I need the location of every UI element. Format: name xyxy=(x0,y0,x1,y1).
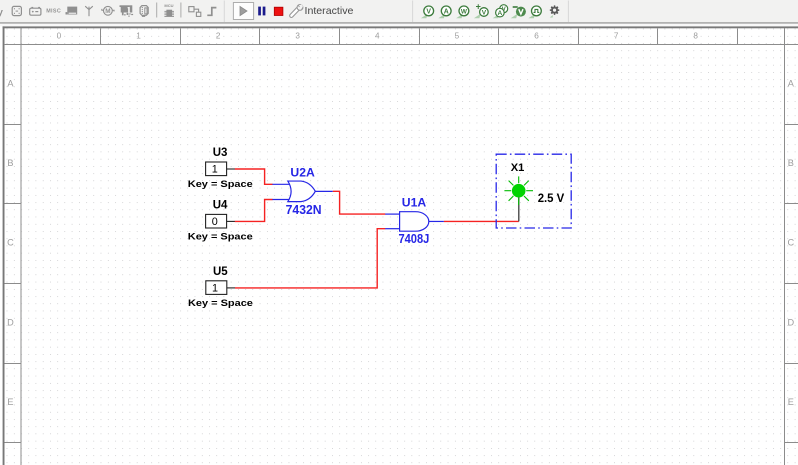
switch U4 pin stub xyxy=(227,220,235,222)
probe X1 lamp xyxy=(512,184,526,198)
or-gate U2A input pin 1 xyxy=(272,183,290,185)
svg-text:1: 1 xyxy=(136,32,141,41)
toolbar: stop button xyxy=(274,7,283,15)
svg-text:0: 0 xyxy=(212,216,218,228)
svg-text:4: 4 xyxy=(375,32,380,41)
or-gate U2A body xyxy=(288,181,316,202)
sheet frame top xyxy=(3,26,798,28)
toolbar: CMOS icon xyxy=(12,6,21,15)
toolbar bottom edge xyxy=(0,22,798,23)
svg-text:U3: U3 xyxy=(213,147,228,159)
toolbar: probe A/V xyxy=(493,5,508,19)
svg-text:V: V xyxy=(426,9,431,16)
svg-text:A: A xyxy=(7,79,14,89)
ruler inner lines xyxy=(21,28,22,465)
toolbar: peripherals icon xyxy=(66,7,78,15)
svg-text:C: C xyxy=(7,238,14,248)
switch U4 label xyxy=(213,200,228,212)
svg-text:3: 3 xyxy=(295,32,300,41)
svg-text:Interactive: Interactive xyxy=(305,6,354,17)
toolbar: NI ELVIS icon xyxy=(120,5,134,16)
svg-text:Key = Space: Key = Space xyxy=(188,298,253,308)
toolbar: leftmost clipped icon xyxy=(0,7,4,18)
probe X1 stem xyxy=(518,197,520,222)
probe X1 label xyxy=(511,162,525,174)
svg-text:5: 5 xyxy=(455,32,460,41)
toolbar: probe V xyxy=(421,6,434,18)
toolbar: separator xyxy=(180,3,181,18)
switch U5 value 1 xyxy=(212,282,218,294)
switch U5 key label xyxy=(188,298,253,308)
toolbar: Interactive text xyxy=(305,6,354,17)
toolbar: RF icon xyxy=(85,6,93,16)
switch U5 label xyxy=(213,266,228,278)
sheet frame left xyxy=(3,26,5,465)
svg-text:A: A xyxy=(444,9,449,16)
svg-text:8: 8 xyxy=(693,32,698,41)
svg-text:C: C xyxy=(787,238,794,248)
svg-text:6: 6 xyxy=(534,32,539,41)
switch U3 pin stub xyxy=(227,168,235,170)
svg-text:MISC: MISC xyxy=(46,9,61,15)
svg-text:D: D xyxy=(7,317,14,327)
or-gate U2A output pin xyxy=(315,190,333,192)
wire U4 to U2A xyxy=(235,200,273,222)
toolbar: misc digital icon xyxy=(30,7,41,15)
toolbar: electromechanical icon xyxy=(101,6,114,15)
wire U1A to probe X1 xyxy=(444,220,519,222)
toolbar: run button xyxy=(233,3,253,20)
wire U5 to U1A xyxy=(235,229,385,288)
toolbar: probe settings gear xyxy=(550,5,560,17)
and-gate U1A part number 7408J xyxy=(398,231,429,246)
and-gate U1A input pin 1 xyxy=(385,213,400,215)
toolbar: bus icon xyxy=(207,8,216,16)
switch U4 body xyxy=(206,214,227,228)
svg-text:U2A: U2A xyxy=(290,165,315,179)
toolbar: wrench icon xyxy=(291,5,303,16)
switch U3 label xyxy=(213,147,228,159)
or-gate U2A input pin 2 xyxy=(272,199,290,201)
svg-text:1: 1 xyxy=(212,282,218,294)
toolbar: probe -V xyxy=(511,6,526,18)
svg-text:A: A xyxy=(788,79,795,89)
switch U3 value 1 xyxy=(212,164,218,176)
toolbar: group edge xyxy=(412,1,413,23)
probe X1 rays xyxy=(504,176,533,205)
toolbar: probe +V xyxy=(474,1,488,18)
svg-text:7: 7 xyxy=(614,32,619,41)
or-gate U2A label xyxy=(290,165,315,179)
switch U5 pin stub xyxy=(227,287,235,289)
toolbar background xyxy=(0,0,798,23)
svg-text:A: A xyxy=(498,10,503,17)
probe X1 selection box xyxy=(496,154,571,228)
left/right ruler dividers xyxy=(5,124,798,443)
and-gate U1A output pin xyxy=(429,220,444,222)
svg-text:W: W xyxy=(461,9,468,16)
svg-text:2: 2 xyxy=(216,32,221,41)
switch U3 body xyxy=(206,162,227,176)
or-gate U2A part number 7432N xyxy=(286,202,322,217)
toolbar: MCU icon xyxy=(164,3,174,17)
svg-text:B: B xyxy=(788,158,794,168)
and-gate U1A input pin 2 xyxy=(385,228,400,230)
svg-text:E: E xyxy=(7,397,13,407)
svg-text:1: 1 xyxy=(212,164,218,176)
svg-text:0: 0 xyxy=(57,32,62,41)
svg-text:MCU: MCU xyxy=(164,3,173,8)
svg-text:V: V xyxy=(482,10,487,17)
toolbar: connector icon xyxy=(140,6,148,17)
svg-text:Key = Space: Key = Space xyxy=(188,232,253,242)
and-gate U1A body xyxy=(400,212,429,232)
svg-text:X1: X1 xyxy=(511,162,525,174)
svg-text:7432N: 7432N xyxy=(286,202,322,217)
toolbar: pause button xyxy=(258,7,265,16)
svg-text:M: M xyxy=(105,8,110,15)
svg-text:7408J: 7408J xyxy=(398,231,429,246)
toolbar: probe W xyxy=(456,6,469,18)
wire U3 to U2A xyxy=(235,169,273,184)
toolbar: hierarchical block icon xyxy=(189,7,201,17)
toolbar: MISC text xyxy=(46,9,61,15)
toolbar: separator xyxy=(156,3,157,18)
svg-text:U4: U4 xyxy=(213,200,228,212)
svg-text:2.5 V: 2.5 V xyxy=(538,191,565,205)
svg-text:B: B xyxy=(7,158,13,168)
wire U2A to U1A xyxy=(333,191,386,214)
svg-text:D: D xyxy=(787,317,794,327)
svg-text:Key = Space: Key = Space xyxy=(188,179,253,189)
toolbar: probe digital xyxy=(528,6,541,18)
svg-text:U1A: U1A xyxy=(402,195,427,209)
svg-text:E: E xyxy=(788,397,794,407)
probe X1 voltage readout xyxy=(538,191,565,205)
switch U4 key label xyxy=(188,232,253,242)
toolbar: group edge xyxy=(224,1,225,23)
top ruler dividers xyxy=(100,28,738,44)
ruler numbers xyxy=(57,32,699,41)
switch U5 body xyxy=(206,281,227,295)
switch U4 value 0 xyxy=(212,216,218,228)
and-gate U1A label xyxy=(402,195,427,209)
svg-text:U5: U5 xyxy=(213,266,228,278)
switch U3 key label xyxy=(188,179,253,189)
toolbar: probe A xyxy=(438,6,451,18)
ruler letters xyxy=(7,79,795,407)
toolbar: group edge xyxy=(568,1,569,23)
